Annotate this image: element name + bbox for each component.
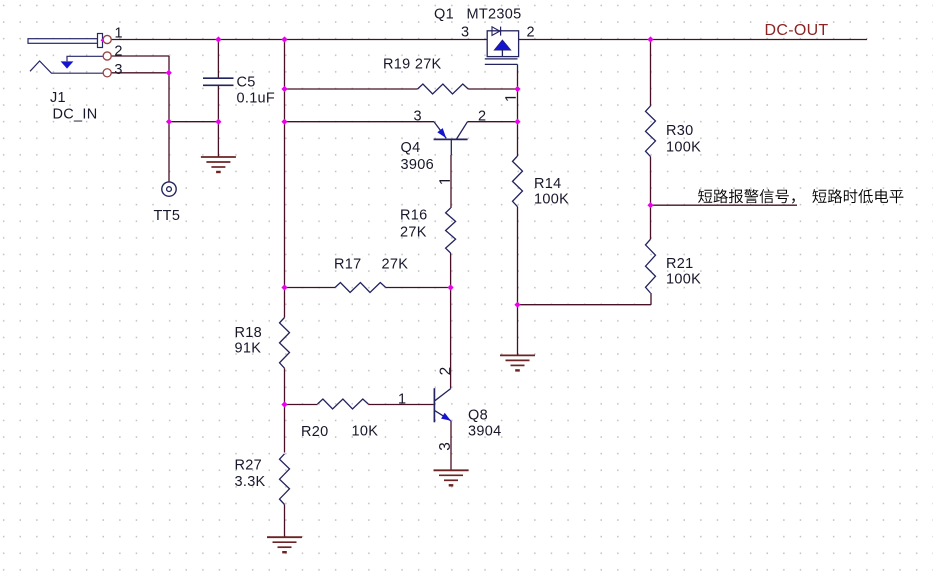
svg-text:100K: 100K xyxy=(666,140,701,156)
svg-text:91K: 91K xyxy=(235,341,262,357)
svg-text:1: 1 xyxy=(398,392,406,408)
svg-text:100K: 100K xyxy=(666,272,701,288)
svg-text:Q4: Q4 xyxy=(401,140,421,156)
svg-text:10K: 10K xyxy=(352,424,379,440)
svg-text:R14: R14 xyxy=(534,176,562,192)
svg-text:3.3K: 3.3K xyxy=(235,474,266,490)
svg-text:DC-OUT: DC-OUT xyxy=(765,22,829,39)
svg-text:R21: R21 xyxy=(666,256,694,272)
svg-text:C5: C5 xyxy=(237,75,256,91)
svg-text:3: 3 xyxy=(114,62,122,78)
svg-text:J1: J1 xyxy=(50,90,66,106)
svg-text:R19 27K: R19 27K xyxy=(383,56,442,72)
svg-text:R27: R27 xyxy=(235,458,263,474)
svg-text:Q8: Q8 xyxy=(468,408,488,424)
svg-text:27K: 27K xyxy=(400,225,427,241)
svg-text:27K: 27K xyxy=(382,257,409,273)
svg-text:R20: R20 xyxy=(301,424,329,440)
svg-text:3906: 3906 xyxy=(401,157,434,173)
svg-text:Q1: Q1 xyxy=(434,7,454,23)
svg-text:3: 3 xyxy=(461,24,469,40)
svg-text:3: 3 xyxy=(414,108,422,124)
svg-text:2: 2 xyxy=(478,108,486,124)
svg-text:1: 1 xyxy=(115,26,123,42)
svg-text:100K: 100K xyxy=(534,192,569,208)
svg-text:TT5: TT5 xyxy=(154,208,181,224)
svg-text:0.1uF: 0.1uF xyxy=(237,91,276,107)
svg-text:R16: R16 xyxy=(400,208,428,224)
svg-text:DC_IN: DC_IN xyxy=(53,107,98,123)
svg-text:MT2305: MT2305 xyxy=(467,7,522,23)
svg-text:R17: R17 xyxy=(334,257,362,273)
svg-text:R18: R18 xyxy=(235,325,263,341)
svg-text:R30: R30 xyxy=(666,123,694,139)
svg-text:2: 2 xyxy=(114,43,122,59)
svg-text:3904: 3904 xyxy=(468,424,501,440)
svg-text:2: 2 xyxy=(527,24,535,40)
